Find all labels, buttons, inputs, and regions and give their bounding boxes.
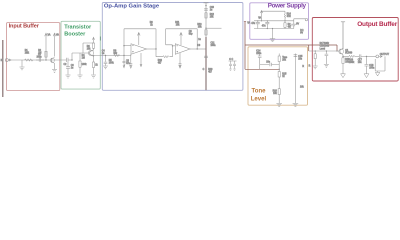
jack sleeve loop <box>375 56 385 71</box>
transistor Q2 <box>88 50 93 55</box>
upper rail <box>262 11 286 14</box>
resistor in chain 2 <box>205 30 207 35</box>
svg-text:C C: C C <box>229 59 233 61</box>
resistor R2 vertical <box>45 51 47 57</box>
level branch 1 resistor <box>314 51 316 54</box>
node <box>197 48 198 49</box>
VA power arrow op-amp2 <box>180 33 183 45</box>
node <box>105 55 106 56</box>
svg-text:OUTPUT: OUTPUT <box>380 54 390 56</box>
op-amp U1B <box>175 44 190 54</box>
cap to ground branch 1 <box>104 56 108 66</box>
red net: drop at output stage <box>336 45 338 51</box>
capacitor C1 <box>36 58 44 62</box>
dc jack wire <box>294 19 305 21</box>
transistor Q3 <box>339 48 344 56</box>
VA power arrow op-amp1 <box>138 33 141 45</box>
component chain column <box>205 3 207 37</box>
chain top tick <box>204 2 209 4</box>
emitter resistor <box>342 56 344 57</box>
coupling capacitor C2 <box>67 58 73 62</box>
tone pot upper <box>278 54 280 57</box>
bias branch below op-amp1 <box>140 53 142 67</box>
svg-text:47R: 47R <box>287 16 292 18</box>
resistor R7 emitter <box>92 62 94 68</box>
ground <box>341 74 346 78</box>
ground <box>20 67 25 70</box>
red net: vertical by blue box <box>244 22 246 70</box>
base bias wire <box>309 50 339 52</box>
ground under Q1 <box>52 70 57 73</box>
capacitor C3 to ground <box>66 62 70 75</box>
capacitor C17 series <box>359 54 366 58</box>
resistor R10 <box>163 56 169 58</box>
transistor Q1 jfet <box>51 57 54 69</box>
output wire op-amp1 <box>147 48 157 50</box>
svg-text:BC549: BC549 <box>345 52 353 54</box>
output buffer group box <box>312 18 398 82</box>
resistor R19 series <box>349 55 355 57</box>
svg-text:VA: VA <box>247 21 250 24</box>
VA arrow source <box>260 11 262 21</box>
tone pot wiper node <box>279 69 280 70</box>
red net: drop at orange border <box>308 45 310 51</box>
out jack <box>376 55 379 58</box>
node emitter out <box>93 55 94 56</box>
VA arrow supply 3 <box>92 37 94 43</box>
svg-text:100k: 100k <box>82 64 88 66</box>
cap C15 horizontal link <box>260 63 280 66</box>
svg-text:100R: 100R <box>349 62 355 64</box>
svg-text:Power Supply: Power Supply <box>268 3 307 10</box>
stub wire right <box>206 27 222 29</box>
svg-text:9V: 9V <box>300 32 303 34</box>
VA arrow supply 1 <box>45 33 48 60</box>
tone level group box <box>248 47 308 105</box>
resistor R6 series <box>114 54 120 56</box>
node <box>366 56 367 57</box>
node on chain <box>205 28 206 29</box>
resistor R1 <box>25 59 33 61</box>
resistor R6 collector <box>92 43 94 48</box>
node A <box>45 59 46 60</box>
green border tick <box>99 37 101 41</box>
VA arrow supply 2 <box>53 33 56 56</box>
svg-text:VA: VA <box>258 17 261 20</box>
node <box>155 48 156 49</box>
bottom wire <box>254 28 294 30</box>
cap detour <box>258 54 262 70</box>
svg-text:9V: 9V <box>296 23 299 25</box>
jack sleeve ground <box>375 71 379 76</box>
decoupling caps C19 C20 <box>229 61 237 70</box>
feedback loop op-amp2 <box>166 29 198 49</box>
power supply group box <box>250 3 309 40</box>
svg-text:220n: 220n <box>256 53 262 55</box>
battery <box>291 21 296 29</box>
transistor booster group box <box>61 21 100 89</box>
svg-text:VA: VA <box>56 34 59 37</box>
resistor in chain <box>205 13 207 18</box>
svg-text:100n: 100n <box>369 68 375 70</box>
op-amp gain stage group box <box>102 3 243 91</box>
lower rail <box>254 20 294 22</box>
svg-text:IN: IN <box>1 60 4 62</box>
ground <box>276 103 282 106</box>
node <box>123 55 124 56</box>
wire to out jack <box>367 55 376 57</box>
ground stub at jack <box>21 60 23 67</box>
resistor dropper <box>284 14 286 19</box>
svg-text:Output Buffer: Output Buffer <box>357 21 398 28</box>
svg-text:100n: 100n <box>211 45 217 47</box>
svg-text:Tone: Tone <box>252 89 267 95</box>
ground <box>293 103 299 106</box>
resistor lower half <box>284 23 286 28</box>
ground <box>364 74 369 78</box>
resistor R4 vertical <box>79 53 81 61</box>
signal wire into stage <box>94 55 132 57</box>
svg-text:2M2: 2M2 <box>25 53 30 55</box>
svg-text:Input Buffer: Input Buffer <box>9 23 40 29</box>
tone pot lower <box>278 72 280 78</box>
dark rail at left edge <box>2 40 4 97</box>
ground <box>270 39 275 42</box>
red net: horizontal rail <box>245 44 337 46</box>
main signal wire <box>11 59 67 61</box>
svg-text:Transistor: Transistor <box>64 25 92 31</box>
svg-text:100n: 100n <box>324 46 330 48</box>
svg-text:100k: 100k <box>109 63 115 65</box>
level branch 2 cap <box>325 51 329 64</box>
input jack IN <box>5 59 8 62</box>
lower resistor <box>278 89 280 95</box>
ground stem <box>272 29 274 39</box>
svg-text:100n: 100n <box>37 57 43 59</box>
svg-text:Level: Level <box>320 48 326 50</box>
svg-text:Booster: Booster <box>64 32 86 38</box>
cap to ground branch 2 <box>123 56 126 68</box>
capacitor C12 <box>256 21 260 29</box>
cap to ground <box>365 56 369 73</box>
red net: wire into tone box <box>245 68 279 70</box>
input buffer group box <box>7 23 60 91</box>
capacitor C13 <box>265 21 269 29</box>
feedback loop op-amp1 <box>124 29 156 56</box>
cap on chain lower <box>204 56 208 58</box>
VA arrow top <box>341 22 345 50</box>
output node wire <box>342 56 343 57</box>
node <box>172 45 173 46</box>
branch col 2 <box>294 54 296 104</box>
output wire op-amp2 <box>190 48 206 50</box>
svg-text:Op-Amp Gain Stage: Op-Amp Gain Stage <box>104 4 160 10</box>
ground branch below op-amp2 <box>179 53 182 68</box>
interstage path <box>156 49 163 57</box>
node B riser to base <box>71 59 72 60</box>
svg-text:Level: Level <box>251 97 267 103</box>
svg-text:VA: VA <box>48 34 51 37</box>
ground branch below op-amp1 <box>129 54 132 68</box>
svg-text:1M: 1M <box>82 58 85 60</box>
chain dark lower part <box>205 37 207 90</box>
svg-text:1M: 1M <box>38 52 41 54</box>
op-amp U1A <box>131 44 147 54</box>
cap in chain <box>204 9 208 10</box>
